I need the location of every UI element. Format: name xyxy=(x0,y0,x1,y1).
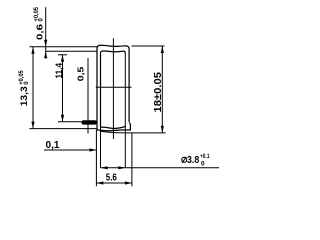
center axis xyxy=(112,38,114,139)
svg-text:0,1: 0,1 xyxy=(46,139,60,151)
18 dim top extension xyxy=(132,45,165,47)
dimension 0,6 line xyxy=(45,7,47,58)
arrow 13,3 bottom xyxy=(31,122,34,129)
dimension 18 line xyxy=(161,46,163,133)
svg-text:13,3: 13,3 xyxy=(19,86,30,106)
part outer contour left+top+right xyxy=(97,45,129,130)
svg-text:18±0.05: 18±0.05 xyxy=(152,72,164,113)
label 0,5 xyxy=(75,66,85,81)
bore wall right xyxy=(124,53,126,168)
arrow 11,4 bottom xyxy=(61,115,64,122)
svg-text:0,5: 0,5 xyxy=(75,66,85,81)
dimension 11,4 line xyxy=(62,55,64,122)
label 0,6 +0,05/0 xyxy=(34,6,45,40)
arrow 5.6 left xyxy=(96,181,103,184)
extension line inner top face xyxy=(46,50,98,52)
arrow 13,3 top xyxy=(31,47,34,54)
black bar lip feature xyxy=(82,120,97,124)
extension line bottom-left xyxy=(30,128,98,130)
arrow 0,6 bottom xyxy=(44,51,47,58)
bore wall left xyxy=(100,127,102,168)
extension line top face xyxy=(30,46,98,48)
svg-text:5.6: 5.6 xyxy=(106,171,117,183)
dimension 11,4 top bar xyxy=(58,54,67,56)
svg-text:3.8: 3.8 xyxy=(187,154,199,166)
svg-text:0: 0 xyxy=(201,160,205,167)
arrow 18 top xyxy=(161,46,164,53)
arrow 0,1 right xyxy=(90,148,97,151)
svg-text:0,6: 0,6 xyxy=(34,24,44,40)
dimension 0,5 line xyxy=(87,58,89,134)
dimension 5.6 line xyxy=(96,182,131,184)
extension line lip to part xyxy=(58,121,83,123)
arrow dia3.8 right xyxy=(118,166,125,169)
svg-text:+0.1: +0.1 xyxy=(200,153,210,160)
flange step bottom right xyxy=(129,123,130,130)
arrow 11,4 top xyxy=(61,55,64,62)
dimension dia 3.8 line xyxy=(101,167,219,169)
part outer bottom wavy xyxy=(97,129,130,132)
part inner bottom wavy xyxy=(101,126,126,128)
arrow 5.6 right xyxy=(125,181,132,184)
dimension 13,3 line xyxy=(32,47,34,129)
arrow 0,6 top xyxy=(44,40,47,47)
arrow 18 bottom xyxy=(161,126,164,133)
svg-text:11,4: 11,4 xyxy=(54,62,65,78)
18 dim bottom extension with break slope xyxy=(101,131,166,133)
label 18 ±0.05 xyxy=(152,72,164,113)
arrow dia3.8 left xyxy=(101,166,108,169)
label 11,4 xyxy=(54,62,65,78)
mid step line xyxy=(96,86,132,88)
part inner contour left+top xyxy=(101,51,126,127)
label 13,3 +0,05/0 xyxy=(19,70,30,107)
outer wall right extension down xyxy=(131,133,133,186)
leader 0,1 xyxy=(44,149,97,151)
outer wall left extension down xyxy=(95,130,97,186)
label dia symbol xyxy=(182,157,187,163)
